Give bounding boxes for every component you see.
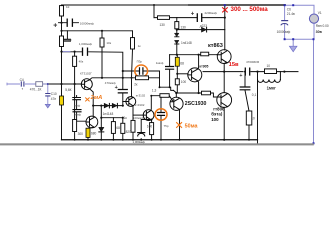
svg-text:1мкф: 1мкф [156, 61, 164, 65]
annotation orange circle P3 [135, 65, 148, 77]
junction (224.8,17.6) [224, 17, 226, 19]
wire gt806 emitter [223, 107, 225, 139]
svg-text:15в: 15в [229, 62, 239, 68]
junction (159.5,87.2) [159, 86, 161, 88]
wire blue segment y51.6 [62, 51, 70, 53]
resistor 680 yellow [86, 128, 90, 137]
wire y29.6 [177, 29, 225, 31]
transistor kt863 [217, 50, 231, 64]
capacitor C y51.6 [83, 48, 88, 55]
capacitor 1000mkf stub [66, 31, 68, 39]
diode row D2 [112, 103, 117, 108]
junction (74.6,139.8) [74, 139, 76, 141]
junction (151.3,95.7) [150, 95, 152, 97]
resistor 1k vertical [131, 38, 135, 49]
wire T5 collector [197, 55, 200, 69]
svg-text:1н4148: 1н4148 [103, 112, 114, 116]
blue input network [7, 81, 50, 108]
svg-text:мкф: мкф [74, 104, 80, 108]
svg-text:+: + [115, 85, 118, 91]
blue junction node [284, 38, 286, 40]
wire T4 emitter [150, 120, 153, 140]
capacitor 4700mkf [245, 68, 249, 75]
svg-text:300: 300 [78, 132, 84, 136]
junction (101.3,105.6) [100, 105, 102, 107]
voltmeter V1 [309, 14, 318, 23]
junction (93.2,105.6) [92, 105, 94, 107]
junction (113.4,139.8) [112, 139, 114, 141]
junction (61.5,30.8) [60, 30, 62, 32]
svg-text:2200мкф: 2200мкф [205, 11, 218, 15]
junction (122.8,105.6) [122, 105, 124, 107]
resistor 5.6K yellow [60, 96, 64, 105]
blue junction node [313, 38, 315, 40]
capacitor C10 plates [45, 94, 50, 96]
diode D2 vertical [175, 40, 179, 43]
inductor 1mkg coil [258, 72, 281, 80]
junction (245,71.6) [244, 71, 246, 73]
blue junction node [292, 4, 294, 6]
wire left column to y51 [61, 47, 63, 53]
wire voltmeter column [313, 23, 315, 39]
wire x226 column top [224, 5, 226, 50]
wire T5 base [177, 73, 188, 75]
svg-text:V1: V1 [318, 11, 322, 15]
svg-text:75p: 75p [164, 124, 169, 128]
junction (101.3,117.7) [100, 117, 102, 119]
wire 470mkf column [122, 71, 124, 106]
svg-text:130: 130 [160, 23, 166, 27]
svg-text:П3р: П3р [137, 60, 143, 64]
junction (74.6,84) [74, 83, 76, 85]
svg-text:1К: 1К [66, 5, 70, 9]
junction (179.5,139.8) [179, 139, 181, 141]
svg-text:680: 680 [91, 132, 97, 136]
blue junction node [224, 4, 226, 6]
svg-text:С6: С6 [287, 8, 291, 12]
blue junction squares [224, 4, 315, 144]
wire input blue [7, 83, 36, 86]
junction (224.2,139.8) [223, 139, 225, 141]
wire T3 base stub [123, 101, 125, 103]
diode D1 vertical [175, 33, 179, 36]
svg-text:1мкф: 1мкф [74, 112, 82, 116]
wire top rail gray segment [189, 4, 285, 6]
transistor T4 kt3102 [143, 110, 154, 121]
zobel column [245, 72, 249, 140]
wire blue horizontal y39 [285, 38, 314, 40]
transistor T1 KT3102 [81, 79, 92, 90]
transistor T2 kt3102 [86, 116, 98, 128]
svg-text:47п: 47п [51, 97, 57, 101]
blue junction node [284, 4, 286, 6]
wire 10k column [101, 31, 103, 78]
wire drop x154 [153, 5, 155, 18]
capacitor P3 in orange circle [140, 68, 143, 74]
wire gt806 collector column [223, 72, 225, 93]
diode vertical bottom [99, 127, 104, 131]
wire T2 collector [92, 106, 94, 117]
wire x101 diode column [100, 106, 102, 140]
transistor kt905 T5 [188, 68, 202, 82]
svg-text:100: 100 [181, 80, 187, 84]
junction (176.8,29.6) [176, 29, 178, 31]
wire blue top [285, 5, 314, 14]
svg-text:1,000мкф: 1,000мкф [133, 140, 146, 144]
svg-text:1,3: 1,3 [152, 88, 157, 92]
junction (198.6,54.7) [198, 54, 200, 56]
svg-text:100мкф: 100мкф [133, 116, 144, 120]
junction (177.3,73.8) [176, 73, 178, 75]
resistor 300 column [74, 84, 76, 140]
blue supply network right [281, 5, 319, 143]
wire bottom rail black [62, 139, 258, 141]
junction (151.6,119.5) [151, 119, 153, 121]
junction (131.5,77.8) [131, 77, 133, 79]
wire y117.7 [101, 117, 123, 119]
annotation orange X emitter T1 [85, 98, 89, 102]
svg-text:кт905: кт905 [199, 64, 208, 68]
wire gt806 base row y93 [176, 93, 217, 97]
svg-text:130: 130 [181, 26, 187, 30]
resistor 820 bottom [122, 118, 124, 140]
capacitor stack x76.6 [77, 96, 86, 122]
svg-text:10000мф: 10000мф [277, 30, 291, 34]
svg-text:бэта⟩: бэта⟩ [211, 112, 223, 117]
diode row D1 [104, 103, 109, 108]
svg-text:10000мкф: 10000мкф [80, 22, 95, 26]
svg-text:кт3102: кт3102 [136, 93, 146, 97]
svg-text:С10: С10 [51, 92, 57, 96]
resistor gt806 base [202, 91, 211, 95]
svg-text:2SC1930: 2SC1930 [185, 101, 207, 107]
resistor 100 vertical [175, 79, 179, 85]
svg-text:50ма: 50ма [185, 123, 199, 129]
svg-text:1,000мкф: 1,000мкф [79, 42, 93, 46]
svg-text:30в: 30в [316, 30, 323, 34]
junction (249,139.8) [248, 139, 250, 141]
annotation red X top [222, 7, 228, 12]
ground arrow blue [292, 39, 294, 46]
resistor 1.3 horizontal [160, 94, 169, 98]
junction (122.8,71) [122, 70, 124, 72]
wire bottom rail gray [0, 143, 314, 145]
svg-text:10: 10 [267, 64, 271, 68]
junction (169.6,87.2) [169, 86, 171, 88]
resistor R 1K vertical top-left [60, 6, 64, 16]
junction (101.3,139.8) [100, 139, 102, 141]
capacitor 2200mkf [197, 14, 201, 21]
capacitor 75p column [160, 97, 162, 140]
wire T3-T4 base link [133, 114, 143, 116]
junction (122.8,117.7) [122, 117, 124, 119]
wire 1k column [132, 31, 133, 97]
svg-text:кт3102: кт3102 [135, 103, 145, 107]
junction (141.2,139.8) [140, 139, 142, 141]
junction (61.5,22.7) [60, 22, 62, 24]
wire driver collector stub [175, 93, 177, 97]
svg-text:КТ3102Г: КТ3102Г [80, 71, 92, 75]
svg-text:+: + [53, 23, 57, 30]
junction (61.5,51.6) [60, 51, 62, 53]
svg-text:0,1: 0,1 [252, 93, 257, 97]
wire output bus y71.6 [203, 71, 298, 73]
resistor base kt863 horizontal [201, 52, 209, 56]
junction (133,139.8) [132, 139, 134, 141]
wire y51.6 row [62, 52, 123, 71]
svg-text:2мА: 2мА [90, 95, 103, 101]
svg-text:300 ... 500ма: 300 ... 500ма [231, 6, 269, 13]
svg-text:820: 820 [126, 130, 132, 134]
junction (122.8,77.8) [122, 77, 124, 79]
wire driver base row y97.3 [151, 96, 173, 101]
capacitor 100mkf branch [141, 120, 151, 140]
ground arrow input [45, 104, 50, 108]
annotation orange X 50ma [176, 122, 182, 128]
wire y88.2 row [160, 87, 174, 90]
resistor 130 horizontal [158, 16, 170, 20]
junction (61.5,84) [60, 83, 62, 85]
wire diagonal to driver collector node [174, 90, 177, 92]
capacitor C4 input [21, 81, 24, 86]
svg-text:40к: 40к [79, 60, 84, 64]
svg-text:68: 68 [180, 61, 184, 65]
resistor 68 bottom [112, 118, 114, 140]
svg-text:+: + [239, 73, 242, 79]
resistor 2k horizontal [136, 76, 149, 80]
resistor 10 output horizontal [265, 69, 277, 74]
wire bias row y54.7 [170, 54, 217, 56]
resistor 470-1K input [36, 82, 43, 87]
diode horizontal [202, 27, 207, 32]
svg-text:5,6К: 5,6К [65, 88, 71, 92]
annotation orange circle 75p [155, 109, 167, 120]
resistor 10k vertical mid [100, 38, 104, 47]
junction (151.6,139.8) [151, 139, 153, 141]
svg-text:4700МКФ: 4700МКФ [246, 60, 260, 64]
wire RC top path y71 [123, 70, 160, 72]
wire x257.5 down [257, 80, 259, 144]
junction (176.8,54.7) [176, 54, 178, 56]
wire T1 collector [89, 78, 123, 80]
junction (88,139.8) [87, 139, 89, 141]
junction (198.6,93) [198, 92, 200, 94]
wire kt863 emitter [224, 62, 227, 71]
svg-text:+: + [191, 12, 195, 18]
capacitor 1mkf column [169, 55, 171, 87]
svg-text:Rвн 0.00: Rвн 0.00 [316, 24, 329, 28]
capacitor 10000mkf horizontal [59, 22, 79, 24]
resistor 40k vertical [74, 52, 76, 84]
wire input black [43, 83, 82, 85]
blue junction node [313, 142, 315, 144]
svg-text:10К: 10К [67, 38, 72, 42]
svg-text:470...1К: 470...1К [30, 88, 42, 92]
transistor T3 kt3102 [126, 97, 136, 107]
wire diode row y105.6 [93, 105, 123, 107]
resistor 10 zobel [246, 111, 252, 125]
resistor 1k T3 emitter [131, 120, 135, 132]
capacitor 470mkf plates [118, 90, 127, 93]
wire blue right column [313, 39, 315, 143]
resistor 130 vertical [175, 22, 179, 29]
resistor 68 yellow column [176, 55, 178, 93]
junction (224.2,71.6) [223, 71, 225, 73]
wire T1 emitter column [89, 89, 93, 106]
svg-text:1мкг: 1мкг [267, 86, 277, 91]
wire rail2 y31 [62, 30, 133, 32]
junction (284.4,71.6) [283, 71, 285, 73]
junction (257.5,71.6) [256, 71, 258, 73]
svg-text:10к: 10к [106, 41, 111, 45]
wire x159 down [159, 78, 161, 87]
wire left column upper [61, 16, 63, 36]
junction (102,77.8) [101, 77, 103, 79]
svg-text:10: 10 [251, 116, 255, 120]
svg-text:кт863: кт863 [208, 43, 223, 49]
wire diode chain column [176, 18, 178, 55]
capacitor 0.1 plates [240, 87, 250, 90]
svg-text:68: 68 [116, 126, 120, 130]
wire T4 collector [150, 96, 152, 111]
wire y17.6 row [154, 17, 225, 19]
wire T2 emitter to 680 [88, 127, 94, 140]
junction (176.3,93) [175, 92, 177, 94]
wire T3 emitter [132, 106, 134, 140]
wire top rail black [61, 4, 189, 6]
wire shunt C10 [47, 84, 49, 104]
junction (102,30.8) [101, 30, 103, 32]
transistor gt806 [217, 93, 232, 108]
blue junction node [292, 38, 294, 40]
junction (154,5) [153, 4, 155, 6]
junction (122.8,139.8) [122, 139, 124, 141]
svg-text:С4: С4 [20, 78, 24, 82]
svg-text:100: 100 [147, 125, 153, 129]
wire left column lower [61, 52, 63, 140]
resistor 10K vertical [60, 36, 64, 47]
junction (161,139.8) [160, 139, 162, 141]
junction (74.6,51.6) [74, 51, 76, 53]
svg-text:д223: д223 [200, 24, 207, 28]
capacitor C6 column [284, 5, 286, 39]
wire T5 emitter [197, 81, 200, 93]
resistor 100 T4 emitter [150, 123, 154, 135]
svg-text:1н4148: 1н4148 [181, 41, 192, 45]
transistor 2SC1930 [170, 97, 183, 110]
svg-text:100: 100 [211, 117, 219, 122]
wire RC bottom path [123, 71, 160, 78]
wire 2SC1930 emitter [178, 109, 180, 140]
node input junction [47, 83, 49, 85]
svg-text:21.4в: 21.4в [287, 12, 295, 16]
